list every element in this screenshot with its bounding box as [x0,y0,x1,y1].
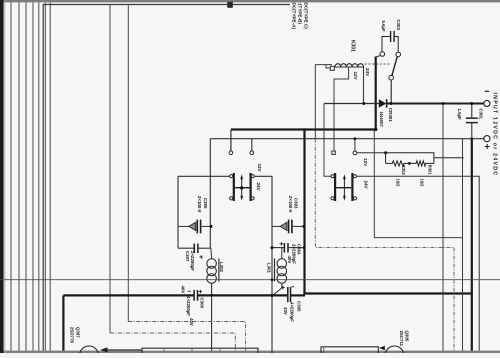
capacitor C305 2x100K (triangle feedthrough) [178,220,213,234]
mechanical link (dashed) [365,63,390,65]
wire drop to selector contact 2 [250,139,254,155]
capacitor C307 2x2200uF [178,244,211,259]
wire top rail [43,5,290,351]
svg-text:2×100 K: 2×100 K [197,196,202,214]
wire center vertical (from plus-rail corner) [209,139,211,249]
relay K301 coil [335,64,364,67]
svg-text:5.6µF: 5.6µF [381,20,386,32]
thick bottom-right rail [303,292,472,294]
svg-text:4×2200µF: 4×2200µF [289,302,294,322]
emitter arrow Q305 [379,346,385,350]
svg-text:1.5µF: 1.5µF [457,109,462,121]
junction dot (branch/full line) [271,278,274,281]
wire right drop B (dash-dot) [453,248,455,351]
wire 12V tap of relay [334,67,349,151]
svg-text:24V: 24V [256,183,261,192]
wire bus left (7 vertical wires) [11,2,50,350]
capacitor C304 2x2200uF [271,242,306,253]
contact circle to plus rail [353,139,385,155]
svg-text:2×100 K: 2×100 K [288,196,293,214]
svg-text:R301: R301 [428,165,433,176]
wire plus rail [210,138,484,140]
svg-text:12V: 12V [353,72,358,81]
svg-text:1N4607: 1N4607 [379,112,384,128]
svg-text:Q307: Q307 [75,327,80,338]
node stub on top rail [227,2,233,8]
wire right drop A [442,104,444,351]
svg-text:L302: L302 [219,262,224,273]
junction dot L302 bottom [210,294,213,297]
svg-text:12V: 12V [257,164,262,173]
svg-text:C301: C301 [479,109,484,120]
svg-text:2SC711: 2SC711 [399,331,404,347]
wire 24V switched branch [324,104,332,177]
capacitor C305b 4x2200uF [281,286,294,303]
wire: long vertical rail A [109,5,111,334]
svg-text:C305: C305 [297,301,302,312]
relay contact circles and arm [380,52,401,104]
svg-text:CR301: CR301 [388,108,393,122]
svg-text:4×2200µF: 4×2200µF [186,296,191,316]
wire: long vertical rail B [127,5,129,322]
svg-text:C308: C308 [200,298,205,309]
svg-text:40V: 40V [181,286,186,294]
wire selector R out [357,176,480,350]
svg-text:C305: C305 [203,198,208,209]
emitter arrow Q307 [100,347,107,352]
svg-text:R302: R302 [401,165,406,176]
inductor L302 [207,248,219,350]
svg-text:12V: 12V [363,158,368,167]
wire full-width horizontal [0,279,500,281]
svg-text:24V: 24V [365,68,370,77]
transformer box left [142,348,258,353]
svg-text:2SD778: 2SD778 [70,327,75,343]
capacitor C303b 2x100K (triangle feedthrough right) [272,220,305,234]
resistor network R302/R301 [384,151,464,166]
svg-text:40V: 40V [189,318,194,326]
wire shield dash line [315,139,454,248]
winding ticks [164,348,220,351]
voltage selector switch S-right [331,173,357,201]
svg-text:2×2200µF: 2×2200µF [190,251,195,271]
capacitor C303 5.6uF [382,31,398,52]
thick vertical right [471,139,473,351]
wire 24V from coil right [363,67,365,104]
connector CN301 terminal minus [484,100,490,106]
plus sign [485,144,490,149]
svg-text:INPUT 12VDC or 24VDC: INPUT 12VDC or 24VDC [491,93,497,177]
wire drop to selector contact 1 [229,130,233,155]
svg-text:24V: 24V [363,181,368,190]
svg-text:DC(TYPE-A): DC(TYPE-A) [292,3,297,30]
svg-text:40V: 40V [287,256,292,264]
transistor Q307 [80,346,99,358]
wire diode anode line [324,103,379,105]
diode CR301 1N4607 [379,99,387,107]
junction dots on plus rail [354,137,474,140]
svg-text:10Ω: 10Ω [395,179,400,188]
wire coil-left to minus bus [314,65,316,139]
thick rail vertical center [303,128,305,294]
terminal square (relay pin) [330,66,334,70]
svg-text:K301: K301 [350,40,356,52]
svg-text::(TYPE-B): :(TYPE-B) [298,3,303,25]
connector CN301 terminal plus [484,136,490,142]
wire shield corner C [374,130,462,238]
thick bottom-left rail [63,295,305,350]
inductor L301 [273,248,287,295]
svg-text:C303: C303 [294,198,299,209]
svg-text:DC(TYPE C): DC(TYPE C) [304,3,309,30]
wire minus rail (thick) [387,103,484,105]
wire relay coil left lead [315,65,332,68]
svg-text:C303: C303 [396,19,401,30]
svg-text:L301: L301 [267,263,272,274]
svg-text:Q305: Q305 [404,331,409,342]
junction dot (L301 branch bottom) [271,294,274,297]
net labels (TYPE A/B/C) [292,3,309,30]
wire dash-dot bottom left B [128,322,245,351]
transformer box right [321,347,378,353]
svg-text:40V: 40V [283,307,288,315]
wire selector L out to L301 branch [254,176,272,353]
svg-text:10Ω: 10Ω [420,179,425,188]
capacitor C301 1.5uF [466,104,478,139]
minus sign [485,90,489,92]
junction dots on minus rail [362,102,473,105]
svg-text:C307: C307 [185,251,190,262]
thick wire: contact to bus [376,56,381,57]
terminal square (12V tap) [332,151,335,154]
wire left branch vertical [177,176,179,248]
wire dash-dot bottom left A [110,333,235,351]
capacitor C308 4x2200uF [188,290,202,301]
wire selector L feed [178,175,230,177]
voltage selector switch S-left [230,173,255,201]
transistor Q305 [385,346,404,358]
thick bus horizontal mid [231,128,377,130]
